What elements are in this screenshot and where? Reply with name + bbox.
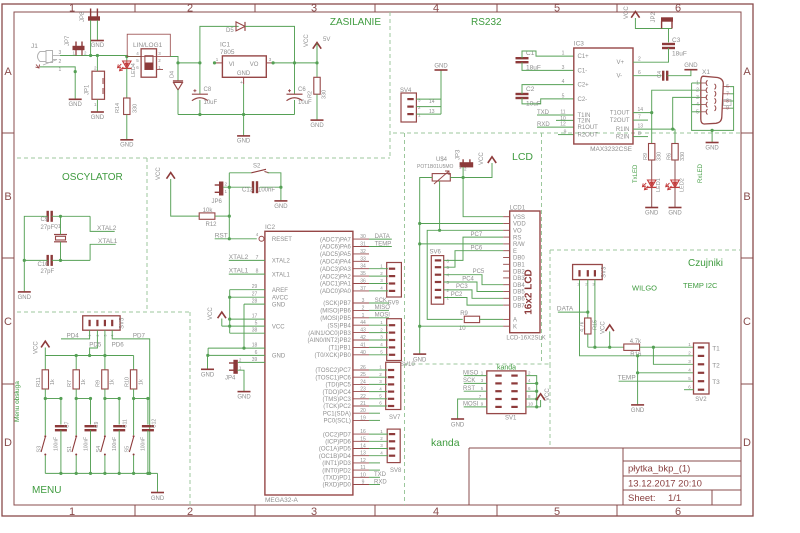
- ground above SV4: [435, 69, 448, 71]
- svg-text:1k: 1k: [50, 379, 56, 385]
- ground under JP1: [91, 111, 104, 113]
- resistor R16 4.7k: [624, 344, 640, 350]
- svg-text:IC3: IC3: [574, 41, 585, 48]
- svg-text:(MISO)PB6: (MISO)PB6: [320, 309, 351, 315]
- svg-text:2: 2: [696, 88, 699, 94]
- frame column ticks top: [134, 4, 136, 12]
- wires SV4 pins to GND: [416, 98, 441, 100]
- svg-text:AREF: AREF: [272, 288, 288, 294]
- IC2 pin AREF: [230, 289, 265, 291]
- net label DATA: [369, 238, 392, 240]
- svg-text:VCC: VCC: [208, 307, 214, 320]
- ground under R2: [311, 119, 324, 121]
- wire JP8 pin1 down to rail: [90, 20, 92, 55]
- switch S4: [104, 435, 106, 437]
- svg-text:GND: GND: [310, 123, 324, 129]
- svg-text:B: B: [4, 191, 11, 203]
- svg-text:Czujniki: Czujniki: [688, 258, 723, 269]
- svg-text:A: A: [743, 66, 751, 78]
- IC2 pin XTAL1: [229, 273, 265, 275]
- wire crystal bottom node: [52, 259, 90, 261]
- wire SV5 pad2 net PD5: [90, 330, 98, 355]
- svg-text:B: B: [743, 191, 750, 203]
- svg-text:D4: D4: [170, 71, 176, 78]
- svg-text:5: 5: [554, 3, 560, 15]
- svg-text:+: +: [240, 80, 243, 86]
- svg-text:27pF: 27pF: [41, 269, 55, 275]
- ground left of IC2: [201, 368, 214, 370]
- net label MOSI: [369, 317, 389, 319]
- wire GND line to SV2 pin2: [638, 355, 694, 357]
- wire IC1 GND pin down: [243, 77, 245, 84]
- svg-text:DB6: DB6: [513, 297, 525, 303]
- svg-text:DATA: DATA: [557, 305, 574, 312]
- node R7 to C9: [75, 389, 77, 435]
- svg-text:5V: 5V: [323, 37, 330, 43]
- svg-text:10k: 10k: [203, 208, 214, 214]
- capacitor C9 100nF: [90, 399, 92, 425]
- svg-text:LIN/LOG1: LIN/LOG1: [133, 42, 163, 49]
- wire LED to R14: [126, 68, 128, 98]
- jumper JP4: [234, 360, 237, 373]
- connector SV3: [573, 265, 603, 280]
- wire JP2 to C3: [668, 29, 670, 43]
- wire VSS from node: [463, 178, 503, 217]
- switch LIN/LOG1 body: [141, 49, 156, 77]
- svg-text:RXD: RXD: [374, 479, 387, 485]
- svg-text:1: 1: [69, 506, 75, 518]
- svg-text:1/1: 1/1: [668, 493, 681, 504]
- svg-text:PD7: PD7: [133, 333, 146, 340]
- connector SV7: [386, 362, 401, 409]
- svg-text:6: 6: [638, 70, 641, 76]
- svg-text:100nF: 100nF: [258, 188, 275, 194]
- svg-text:3: 3: [103, 334, 107, 336]
- supply arrow VCC 5V: [313, 43, 321, 49]
- svg-text:4: 4: [696, 102, 699, 108]
- svg-text:XTAL2: XTAL2: [272, 259, 291, 265]
- svg-text:JP6: JP6: [212, 199, 223, 205]
- svg-text:5: 5: [255, 321, 258, 327]
- ground under X1: [706, 142, 719, 144]
- svg-text:PC4: PC4: [462, 276, 474, 282]
- resistor R9 330: [651, 113, 653, 144]
- svg-text:4: 4: [433, 506, 439, 518]
- svg-text:100nF: 100nF: [112, 437, 118, 451]
- stub PD2: [369, 469, 380, 471]
- ground at C4: [684, 69, 697, 71]
- wire JP1 pin1 to GND: [96, 99, 98, 112]
- svg-text:R9: R9: [96, 380, 102, 387]
- capacitor C10 27pF: [47, 255, 49, 266]
- svg-text:A: A: [4, 66, 12, 78]
- svg-text:PD6: PD6: [112, 342, 125, 349]
- svg-text:C1-: C1-: [578, 68, 588, 74]
- svg-text:X1: X1: [702, 69, 710, 76]
- svg-text:2: 2: [187, 3, 193, 15]
- wire V- pin6: [633, 75, 662, 77]
- svg-text:JP2: JP2: [651, 11, 657, 22]
- IC2 pin VCC5: [222, 325, 265, 327]
- svg-text:330: 330: [133, 104, 139, 113]
- svg-text:SV7: SV7: [389, 415, 401, 421]
- svg-text:10uF: 10uF: [204, 100, 218, 106]
- svg-text:27: 27: [252, 292, 258, 298]
- vcc bracket wires: [229, 290, 231, 334]
- svg-text:C9: C9: [41, 217, 49, 223]
- wire SV3 pin3 to VCC rail: [594, 280, 596, 348]
- wire switch to D4 node: [170, 57, 200, 63]
- wire R9 to A pin: [480, 318, 504, 320]
- svg-text:TxLED: TxLED: [633, 164, 639, 183]
- svg-text:6: 6: [675, 506, 681, 518]
- wire SV3 pin2 DATA: [587, 280, 589, 318]
- svg-text:DB3: DB3: [513, 276, 525, 282]
- capacitor C7 100nF: [60, 399, 62, 425]
- svg-text:1: 1: [696, 81, 699, 87]
- svg-text:4: 4: [562, 79, 565, 85]
- junction D5 right: [293, 61, 296, 64]
- svg-text:Sheet:: Sheet:: [628, 493, 655, 504]
- svg-text:GND: GND: [272, 354, 286, 360]
- svg-text:(T1)PB1: (T1)PB1: [329, 346, 352, 352]
- svg-text:330: 330: [322, 90, 328, 99]
- svg-text:WILGO: WILGO: [632, 284, 657, 293]
- svg-text:5: 5: [554, 506, 560, 518]
- svg-text:GND: GND: [684, 63, 698, 69]
- svg-text:GND: GND: [413, 358, 427, 364]
- net label RXD at PD0: [369, 484, 380, 486]
- svg-text:VCC: VCC: [34, 341, 40, 354]
- resistor R12 10k: [199, 213, 215, 219]
- svg-text:16x2 LCD: 16x2 LCD: [524, 269, 535, 315]
- svg-text:R1OUT: R1OUT: [578, 125, 599, 131]
- resistor R9 1k: [104, 356, 106, 370]
- svg-text:GND: GND: [18, 295, 32, 301]
- svg-text:18: 18: [252, 343, 258, 349]
- wire VDD to rail: [420, 223, 503, 225]
- junction JP1 top node: [96, 54, 99, 57]
- svg-text:9: 9: [726, 106, 729, 112]
- svg-text:DB7: DB7: [513, 303, 525, 309]
- svg-text:GND: GND: [272, 302, 286, 308]
- svg-text:C13: C13: [242, 188, 254, 194]
- svg-text:PC2: PC2: [451, 292, 463, 298]
- svg-text:(RXD)PD0: (RXD)PD0: [323, 483, 352, 489]
- svg-text:(TCK)PC2: (TCK)PC2: [323, 404, 351, 410]
- menu vcc rail: [45, 355, 133, 357]
- wire to menu GND: [157, 473, 159, 492]
- svg-text:3: 3: [311, 506, 317, 518]
- wire J1 pin1 to GND: [40, 67, 75, 99]
- svg-text:(ADC0)PA0: (ADC0)PA0: [320, 289, 352, 295]
- svg-text:(ICP)PD6: (ICP)PD6: [325, 440, 351, 446]
- svg-text:8: 8: [638, 131, 641, 137]
- resistor R14 330: [124, 98, 130, 115]
- svg-text:1k: 1k: [81, 379, 87, 385]
- svg-text:10: 10: [528, 402, 534, 407]
- svg-text:GND: GND: [91, 43, 105, 49]
- diode D4: [177, 63, 179, 81]
- wire K to GND rail: [420, 325, 503, 327]
- svg-text:R14: R14: [115, 103, 121, 113]
- svg-text:(TDO)PC4: (TDO)PC4: [323, 390, 352, 396]
- connector SV9: [387, 263, 402, 298]
- junction rail C8: [198, 113, 201, 116]
- section border Czujniki: [550, 249, 741, 251]
- svg-text:VO: VO: [513, 229, 522, 235]
- svg-text:17: 17: [252, 314, 258, 320]
- svg-text:C7: C7: [64, 421, 70, 428]
- svg-text:V+: V+: [617, 60, 625, 66]
- svg-text:VCC: VCC: [156, 167, 162, 180]
- svg-text:SV1: SV1: [505, 416, 517, 422]
- svg-text:Menu obsługa: Menu obsługa: [14, 381, 21, 422]
- svg-text:GND: GND: [69, 102, 83, 108]
- svg-text:kanda: kanda: [431, 437, 460, 449]
- svg-text:(AIN1/OC0)PB3: (AIN1/OC0)PB3: [308, 331, 351, 337]
- svg-text:LED1: LED1: [656, 178, 662, 192]
- junction IC1 pin1: [213, 61, 216, 64]
- svg-text:DB5: DB5: [513, 290, 525, 296]
- svg-text:330: 330: [680, 152, 686, 161]
- svg-text:TXD: TXD: [374, 472, 387, 478]
- svg-text:VI: VI: [229, 62, 235, 68]
- junction D5 left: [198, 61, 201, 64]
- svg-text:C11: C11: [123, 419, 129, 428]
- svg-text:T2OUT: T2OUT: [610, 118, 630, 124]
- svg-text:D5: D5: [226, 28, 234, 34]
- svg-text:S5: S5: [125, 446, 131, 453]
- svg-text:SV2: SV2: [695, 397, 707, 403]
- wire R14 to GND: [126, 115, 128, 140]
- section border MENU right: [189, 312, 191, 505]
- svg-text:1k: 1k: [138, 379, 144, 385]
- svg-text:MAX3232CSE: MAX3232CSE: [590, 146, 633, 153]
- junction rail IC1 GND: [242, 113, 245, 116]
- IC2 pin 39: [238, 361, 265, 363]
- svg-text:S2: S2: [253, 164, 261, 170]
- capacitor C6 10uF: [294, 63, 296, 94]
- svg-text:1k: 1k: [110, 379, 116, 385]
- wire JP1 pin2 up to rail: [96, 56, 98, 72]
- svg-text:TEMP I2C: TEMP I2C: [683, 281, 718, 290]
- svg-text:R2IN: R2IN: [616, 135, 630, 141]
- wire SV5 pad3: [104, 330, 106, 355]
- stub PC1: [369, 412, 380, 414]
- svg-text:SV3: SV3: [602, 266, 608, 278]
- svg-text:R2: R2: [308, 91, 314, 98]
- svg-text:XTAL1: XTAL1: [272, 272, 291, 278]
- resistor R15 4.7k: [585, 318, 591, 334]
- svg-text:DB4: DB4: [513, 283, 525, 289]
- svg-text:OSCYLATOR: OSCYLATOR: [62, 172, 123, 183]
- svg-text:RESET: RESET: [272, 237, 292, 243]
- svg-text:(ADC2)PA2: (ADC2)PA2: [320, 274, 352, 280]
- svg-text:JP3: JP3: [456, 149, 462, 160]
- svg-text:C6: C6: [298, 87, 306, 93]
- svg-text:GND: GND: [705, 146, 719, 152]
- svg-text:PD5: PD5: [89, 342, 102, 349]
- wire SV6 pin3 to DB5 net PC4: [444, 282, 503, 292]
- svg-text:3: 3: [696, 95, 699, 101]
- net label TXD at PD1: [369, 476, 380, 478]
- svg-text:J1: J1: [31, 43, 38, 50]
- net label XTAL2: [90, 216, 115, 231]
- stub PD3: [369, 462, 380, 464]
- wire GND28 down to pin18 node: [243, 304, 245, 348]
- jumper JP6: [220, 182, 223, 195]
- wires pins 18 6 to GND: [207, 348, 209, 355]
- svg-text:R2OUT: R2OUT: [578, 133, 599, 139]
- svg-text:JP8: JP8: [80, 11, 86, 22]
- svg-text:VCC: VCC: [601, 321, 607, 334]
- ground LCD rail: [413, 353, 426, 355]
- svg-text:6: 6: [726, 84, 729, 90]
- svg-text:GND: GND: [631, 408, 645, 414]
- svg-text:DB1: DB1: [513, 263, 525, 269]
- resistor R7 1k: [75, 356, 77, 370]
- svg-text:C9: C9: [94, 421, 100, 428]
- svg-text:(T0/XCK)PB0: (T0/XCK)PB0: [315, 353, 352, 359]
- IC2 pin 17: [230, 318, 265, 320]
- svg-text:PC7: PC7: [471, 232, 483, 238]
- connector SV10: [387, 319, 402, 361]
- wire JP8 pin2 to GND: [96, 20, 98, 40]
- svg-text:14: 14: [429, 99, 435, 105]
- resistor R6 330: [673, 128, 675, 130]
- wire crystal top node: [52, 215, 90, 217]
- svg-text:(SCK)PB7: (SCK)PB7: [323, 301, 351, 307]
- wire VO to pot wiper: [440, 181, 504, 230]
- svg-text:DATA: DATA: [375, 234, 390, 240]
- svg-text:28: 28: [252, 299, 258, 305]
- svg-text:5: 5: [696, 109, 699, 115]
- svg-text:GND: GND: [451, 423, 465, 429]
- section border OSCYLATOR: [146, 158, 148, 312]
- svg-text:8: 8: [256, 269, 259, 275]
- wire R12 to RST node: [215, 215, 229, 217]
- ground under JP4: [238, 391, 251, 393]
- svg-text:(TMS)PC3: (TMS)PC3: [323, 397, 352, 403]
- svg-text:A: A: [513, 318, 517, 324]
- node R9 to C11: [104, 389, 106, 435]
- svg-text:płytka_bkp_(1): płytka_bkp_(1): [628, 464, 690, 475]
- wire reset vertical: [228, 173, 230, 239]
- svg-text:(ADC4)PA4: (ADC4)PA4: [320, 260, 352, 266]
- svg-text:SV5: SV5: [120, 317, 126, 329]
- svg-text:D: D: [4, 437, 12, 449]
- vcc rail to R16: [588, 346, 624, 348]
- wire to GND symbol: [243, 115, 245, 136]
- svg-text:(ADC7)PA7: (ADC7)PA7: [320, 237, 352, 243]
- IC2 pin AVCC: [230, 296, 265, 298]
- wire JP4 to GND: [237, 370, 244, 391]
- svg-text:39: 39: [252, 357, 258, 363]
- LED LED2: [674, 160, 676, 180]
- svg-text:GND: GND: [151, 496, 165, 502]
- svg-text:2: 2: [187, 506, 193, 518]
- wire C4 to GND: [667, 70, 691, 76]
- svg-text:RS: RS: [513, 235, 521, 241]
- wire SV6 pin6 to RS net PC7: [444, 237, 503, 260]
- svg-text:R1IN: R1IN: [616, 127, 630, 133]
- svg-text:DB2: DB2: [513, 269, 525, 275]
- svg-text:R16: R16: [630, 352, 642, 358]
- svg-text:18uF: 18uF: [672, 51, 687, 58]
- svg-text:V-: V-: [617, 74, 623, 80]
- svg-text:5: 5: [562, 94, 565, 100]
- svg-text:LCD-16X2SLK: LCD-16X2SLK: [506, 336, 545, 342]
- wire SV5 pad1 net PD4: [61, 330, 90, 339]
- stub PC0: [369, 419, 380, 421]
- svg-text:C12: C12: [151, 419, 157, 428]
- svg-text:GND: GND: [237, 71, 251, 77]
- svg-text:R10: R10: [124, 377, 130, 387]
- svg-text:TEMP: TEMP: [375, 241, 392, 247]
- svg-text:4.7k: 4.7k: [579, 321, 585, 332]
- svg-text:1: 1: [88, 334, 92, 336]
- wire SV6 pin4 to DB4 net PC5: [444, 275, 503, 285]
- svg-text:330: 330: [657, 152, 663, 161]
- svg-text:MEGA32-A: MEGA32-A: [265, 497, 299, 504]
- svg-text:12: 12: [560, 122, 566, 128]
- wires X1 right pins bracket to GND: [730, 87, 734, 109]
- svg-text:GND: GND: [120, 143, 134, 149]
- net label SCK: [369, 302, 389, 304]
- wire SV6 pin1 to DB7 net PC2: [444, 298, 503, 306]
- junction D4 node: [176, 61, 179, 64]
- section border ZASILANIE: [17, 157, 390, 159]
- svg-text:R9: R9: [643, 153, 649, 160]
- ground under JP8: [91, 40, 104, 42]
- ground under SV1: [451, 418, 464, 420]
- capacitor C11 100nF: [118, 399, 120, 425]
- connector SV2: [694, 343, 710, 394]
- svg-text:MOSI: MOSI: [375, 313, 391, 319]
- svg-text:(SS)PB4: (SS)PB4: [328, 323, 352, 329]
- svg-text:S1: S1: [67, 446, 73, 453]
- svg-text:C1+: C1+: [578, 54, 590, 60]
- capacitor C9 27pF: [47, 211, 49, 222]
- resistor R10 1k: [133, 356, 135, 370]
- svg-text:(TOSC2)PC7: (TOSC2)PC7: [315, 368, 351, 374]
- svg-text:S3: S3: [36, 446, 42, 453]
- svg-text:DB0: DB0: [513, 256, 525, 262]
- svg-text:13: 13: [429, 109, 435, 115]
- svg-text:T3: T3: [712, 379, 720, 386]
- svg-text:(ADC5)PA5: (ADC5)PA5: [320, 252, 352, 258]
- section border kanda: [405, 363, 551, 365]
- section border LCD: [404, 133, 406, 364]
- svg-text:3: 3: [311, 3, 317, 15]
- svg-text:VCC: VCC: [624, 6, 630, 19]
- frame column ticks bottom: [134, 505, 136, 516]
- svg-text:GND: GND: [645, 211, 659, 217]
- svg-text:D: D: [743, 437, 751, 449]
- svg-text:C10: C10: [38, 262, 50, 268]
- wire JP6 to C13 to S2 node: [223, 186, 250, 188]
- svg-text:100nF: 100nF: [141, 437, 147, 451]
- svg-text:(INT0)PD2: (INT0)PD2: [322, 468, 351, 474]
- svg-text:POT1B01U5MO: POT1B01U5MO: [417, 164, 454, 170]
- svg-text:VCC: VCC: [304, 34, 310, 47]
- wire C3 to V+ pin2: [633, 48, 669, 62]
- svg-text:(ADC3)PA3: (ADC3)PA3: [320, 267, 352, 273]
- wire SV5 pad4 net PD7: [112, 330, 150, 473]
- wire J1 pin3 to main rail: [60, 55, 127, 57]
- svg-text:MENU: MENU: [32, 485, 61, 496]
